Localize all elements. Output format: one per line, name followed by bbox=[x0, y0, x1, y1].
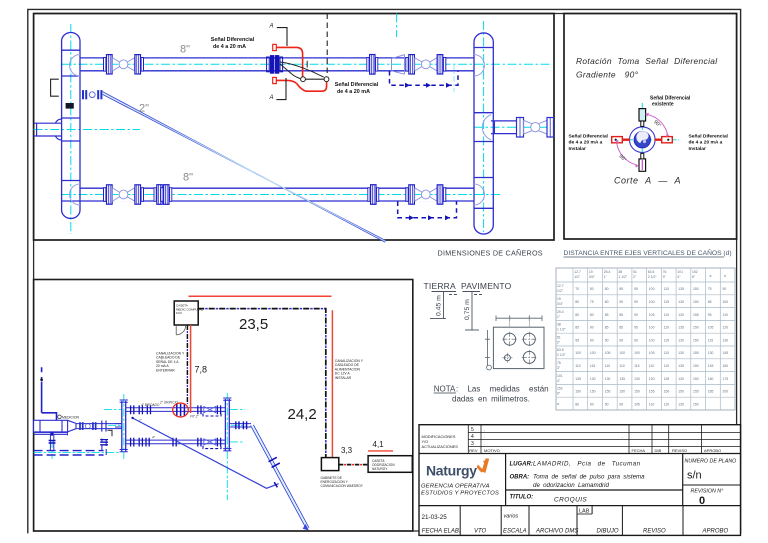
red power cable right vertical bbox=[331, 310, 333, 457]
svg-text:12.7: 12.7 bbox=[574, 270, 581, 274]
svg-text:130: 130 bbox=[678, 377, 684, 381]
svg-text:150: 150 bbox=[634, 390, 640, 394]
ground line tierra bbox=[432, 292, 458, 295]
svg-text:80: 80 bbox=[590, 287, 594, 291]
svg-text:95: 95 bbox=[619, 402, 623, 406]
svg-text:150: 150 bbox=[664, 390, 670, 394]
svg-text:90: 90 bbox=[590, 338, 594, 342]
svg-text:51: 51 bbox=[557, 335, 561, 339]
right tap to install bbox=[662, 137, 673, 143]
top tap existing bbox=[639, 109, 646, 121]
centerline top 8in pipe bbox=[62, 63, 552, 65]
pipe circle 1 bbox=[504, 333, 516, 345]
svg-text:REVISO: REVISO bbox=[643, 529, 666, 535]
weld tick on pipe bbox=[306, 61, 308, 68]
svg-text:8": 8" bbox=[183, 172, 193, 184]
naturgy orange mark bbox=[477, 465, 483, 473]
svg-text:GERENCIA OPERATIVA: GERENCIA OPERATIVA bbox=[421, 484, 490, 490]
svg-text:155: 155 bbox=[605, 390, 611, 394]
svg-text:130: 130 bbox=[590, 377, 596, 381]
svg-text:varios: varios bbox=[504, 514, 519, 520]
svg-text:110: 110 bbox=[723, 313, 729, 317]
svg-text:115: 115 bbox=[664, 300, 670, 304]
underground dashed mains bbox=[34, 450, 104, 452]
svg-text:95: 95 bbox=[619, 338, 623, 342]
svg-text:101: 101 bbox=[677, 270, 683, 274]
svg-text:160: 160 bbox=[723, 364, 729, 368]
svg-text:2": 2" bbox=[139, 103, 149, 115]
pipe circle 2 bbox=[523, 333, 535, 345]
bottom tap bbox=[639, 159, 646, 171]
svg-text:85: 85 bbox=[575, 326, 579, 330]
centerline right manifold header bbox=[226, 393, 228, 500]
svg-text:e: e bbox=[724, 274, 726, 278]
signal cable duct 23,5 run bbox=[198, 309, 326, 460]
svg-text:1/2": 1/2" bbox=[574, 275, 581, 279]
svg-text:4" BRIDADO: 4" BRIDADO bbox=[141, 403, 160, 407]
svg-text:Corte A — A: Corte A — A bbox=[614, 176, 681, 186]
svg-text:de 4 a 20 mA: de 4 a 20 mA bbox=[213, 44, 246, 50]
svg-text:Rotación Toma Señal Diferencia: Rotación Toma Señal Diferencial bbox=[576, 56, 718, 66]
red tap valve top bbox=[273, 44, 277, 50]
centerline short top bbox=[396, 14, 398, 38]
svg-text:101: 101 bbox=[557, 374, 563, 378]
junction circle 1 bbox=[301, 77, 306, 82]
left dimension line bbox=[485, 330, 490, 366]
centerline right header vertical bbox=[483, 21, 485, 232]
middle stub left header bbox=[115, 424, 122, 427]
svg-text:95: 95 bbox=[575, 338, 579, 342]
svg-text:152: 152 bbox=[557, 387, 563, 391]
svg-text:150: 150 bbox=[693, 338, 699, 342]
svg-text:8": 8" bbox=[180, 44, 190, 56]
spec blind double flange bottom pipe bbox=[154, 185, 165, 205]
svg-text:25.4: 25.4 bbox=[557, 310, 564, 314]
left header vessel bbox=[62, 33, 80, 219]
centerline inlet drop bbox=[51, 440, 53, 459]
tee fitting bbox=[102, 421, 106, 432]
svg-text:: Las medidas están: : Las medidas están bbox=[456, 385, 549, 394]
svg-text:155: 155 bbox=[649, 390, 655, 394]
modifications table lines bbox=[419, 425, 741, 454]
svg-text:110: 110 bbox=[664, 351, 670, 355]
svg-text:Señal Diferencial: Señal Diferencial bbox=[335, 82, 379, 88]
small pipe circle 4 bbox=[504, 355, 510, 361]
svg-text:ACTUALIZACIONES: ACTUALIZACIONES bbox=[422, 444, 459, 449]
svg-text:135: 135 bbox=[619, 377, 625, 381]
svg-text:FIT 2": FIT 2" bbox=[190, 414, 199, 418]
svg-text:90: 90 bbox=[634, 313, 638, 317]
pipe section inner bore bbox=[634, 132, 650, 148]
orifice flange pair bbox=[267, 57, 270, 72]
junction dot bbox=[50, 432, 53, 435]
left header top tee fillet bbox=[70, 55, 81, 77]
svg-text:19: 19 bbox=[557, 297, 561, 301]
svg-text:90: 90 bbox=[634, 338, 638, 342]
svg-text:dadas en milimetros.: dadas en milimetros. bbox=[452, 395, 530, 404]
svg-text:19: 19 bbox=[589, 270, 593, 274]
svg-text:150: 150 bbox=[693, 326, 699, 330]
svg-text:100: 100 bbox=[634, 351, 640, 355]
upper small pipe to cap bbox=[34, 432, 68, 436]
red tubing drop bbox=[190, 325, 192, 413]
valve assembly top pipe right bbox=[406, 55, 446, 74]
svg-text:85: 85 bbox=[708, 300, 712, 304]
svg-text:3/4": 3/4" bbox=[589, 275, 596, 279]
svg-text:150: 150 bbox=[678, 390, 684, 394]
svg-text:120: 120 bbox=[664, 402, 670, 406]
svg-text:150: 150 bbox=[619, 390, 625, 394]
cable gabinete-caseta bbox=[339, 464, 368, 466]
centerline bottom 8in pipe bbox=[62, 194, 500, 196]
svg-text:63.5: 63.5 bbox=[648, 270, 655, 274]
svg-text:.: . bbox=[484, 427, 485, 432]
svg-text:ESCALA: ESCALA bbox=[503, 529, 527, 535]
svg-text:115: 115 bbox=[634, 364, 640, 368]
svg-text:de 4 a 20 mA: de 4 a 20 mA bbox=[337, 89, 370, 95]
corner bracket marker bbox=[108, 430, 113, 436]
svg-text:38: 38 bbox=[618, 270, 622, 274]
svg-text:0: 0 bbox=[699, 495, 705, 507]
depth dim pavimento 0.75m bbox=[471, 292, 473, 331]
svg-text:Señal Diferencial: Señal Diferencial bbox=[650, 96, 691, 102]
svg-text:80: 80 bbox=[575, 402, 579, 406]
red aerial cable top bbox=[189, 295, 332, 297]
svg-text:Señal Diferencial: Señal Diferencial bbox=[569, 134, 609, 140]
svg-text:130: 130 bbox=[723, 338, 729, 342]
svg-text:de 4 a 20 mA a: de 4 a 20 mA a bbox=[569, 140, 603, 146]
svg-text:s/n: s/n bbox=[687, 470, 702, 482]
svg-text:FECHA: FECHA bbox=[632, 448, 646, 453]
svg-text:APROBO: APROBO bbox=[704, 448, 721, 453]
svg-text:100: 100 bbox=[649, 300, 655, 304]
junction circle 2 bbox=[324, 77, 329, 82]
crosshair centerlines bbox=[625, 139, 679, 141]
svg-text:100: 100 bbox=[649, 287, 655, 291]
svg-text:80: 80 bbox=[575, 313, 579, 317]
svg-text:85: 85 bbox=[619, 326, 623, 330]
svg-text:4,1: 4,1 bbox=[373, 440, 385, 449]
svg-text:130: 130 bbox=[678, 313, 684, 317]
drop to underground w flanges bbox=[50, 435, 53, 450]
dashed bypass under top pipe bbox=[390, 71, 459, 85]
svg-text:LAMADRID, Pcia de Tucuman: LAMADRID, Pcia de Tucuman bbox=[533, 461, 641, 468]
svg-text:21-03-25: 21-03-25 bbox=[422, 514, 448, 521]
svg-text:115: 115 bbox=[664, 338, 670, 342]
red tubing from bottom tap bbox=[276, 80, 326, 91]
svg-text:COMUNICACION WAESROY: COMUNICACION WAESROY bbox=[321, 484, 364, 488]
svg-text:ENTERRAR: ENTERRAR bbox=[156, 368, 175, 372]
rotation arc bottom left bbox=[617, 144, 637, 166]
svg-text:135: 135 bbox=[678, 287, 684, 291]
main block cell lines bbox=[419, 454, 741, 506]
svg-text:90: 90 bbox=[634, 300, 638, 304]
centerline right 2in stub bbox=[474, 126, 553, 128]
svg-text:Toma de señal de pulso para si: Toma de señal de pulso para sistema bbox=[533, 474, 645, 481]
centerline left header vertical bbox=[70, 24, 72, 234]
svg-text:80: 80 bbox=[575, 300, 579, 304]
svg-text:TIERRA: TIERRA bbox=[424, 281, 457, 291]
svg-text:110: 110 bbox=[649, 364, 655, 368]
svg-text:FCV: FCV bbox=[176, 311, 182, 315]
gabinete box bbox=[321, 458, 338, 471]
inlet small valve bbox=[79, 422, 96, 430]
svg-text:2 1/2": 2 1/2" bbox=[557, 353, 567, 357]
svg-text:145: 145 bbox=[723, 351, 729, 355]
svg-text:155: 155 bbox=[693, 313, 699, 317]
svg-text:135: 135 bbox=[678, 326, 684, 330]
svg-text:130: 130 bbox=[678, 338, 684, 342]
underground elbow up bbox=[102, 439, 106, 456]
svg-text:NOTA: NOTA bbox=[434, 385, 456, 394]
caseta medicion box bbox=[174, 301, 198, 325]
svg-text:1/2": 1/2" bbox=[557, 289, 564, 293]
svg-text:155: 155 bbox=[693, 351, 699, 355]
svg-text:90: 90 bbox=[723, 287, 727, 291]
svg-text:0,75 m: 0,75 m bbox=[464, 299, 471, 320]
depth dim tierra 0.45m bbox=[443, 292, 445, 319]
svg-text:115: 115 bbox=[708, 338, 714, 342]
right header vessel bbox=[474, 33, 493, 234]
svg-text:LAB: LAB bbox=[579, 509, 590, 515]
svg-text:PAVIMENTO: PAVIMENTO bbox=[461, 281, 512, 291]
svg-text:REVISO: REVISO bbox=[672, 448, 687, 453]
svg-text:150: 150 bbox=[693, 364, 699, 368]
svg-text:115: 115 bbox=[590, 364, 596, 368]
svg-text:152: 152 bbox=[692, 270, 698, 274]
svg-text:DISTANCIA ENTRE EJES VERTICALE: DISTANCIA ENTRE EJES VERTICALES DE CAÑOS… bbox=[564, 248, 732, 257]
svg-text:23,5: 23,5 bbox=[239, 316, 268, 333]
svg-text:51: 51 bbox=[633, 270, 637, 274]
red tap valve bottom bbox=[273, 77, 277, 83]
svg-text:110: 110 bbox=[649, 402, 655, 406]
svg-text:105: 105 bbox=[634, 402, 640, 406]
pipe circle 3 bbox=[523, 351, 535, 363]
svg-text:.: . bbox=[622, 434, 623, 439]
title block outer frame bbox=[419, 425, 741, 536]
right header bottom tee fillet bbox=[474, 184, 485, 205]
svg-text:95: 95 bbox=[708, 313, 712, 317]
svg-text:3: 3 bbox=[471, 441, 474, 447]
svg-text:REVISION N°: REVISION N° bbox=[691, 489, 724, 495]
svg-text:135: 135 bbox=[678, 364, 684, 368]
2in diagonal line bbox=[103, 92, 387, 243]
svg-text:80: 80 bbox=[605, 287, 609, 291]
wire between junctions bbox=[305, 78, 324, 80]
medicion tag bbox=[58, 415, 62, 419]
door swing bbox=[176, 325, 186, 335]
svg-text:a: a bbox=[710, 274, 712, 278]
svg-text:DIBUJO: DIBUJO bbox=[597, 529, 619, 535]
box: site plan frame bbox=[34, 280, 413, 532]
svg-text:155: 155 bbox=[693, 390, 699, 394]
orifice fitting in red circle bbox=[177, 404, 185, 416]
centerline pale vertical at bypass bbox=[453, 64, 455, 92]
svg-text:80: 80 bbox=[605, 300, 609, 304]
2in tap valve on left header bbox=[82, 90, 102, 99]
svg-text:Naturgy: Naturgy bbox=[426, 463, 477, 479]
svg-text:a: a bbox=[557, 402, 559, 406]
box: rotation detail frame bbox=[564, 14, 737, 240]
svg-text:TITULO:: TITULO: bbox=[510, 495, 534, 501]
svg-text:110: 110 bbox=[575, 364, 581, 368]
svg-text:de 4 a 20 mA a: de 4 a 20 mA a bbox=[689, 140, 723, 146]
svg-text:145: 145 bbox=[708, 364, 714, 368]
svg-text:Gradiente 90°: Gradiente 90° bbox=[576, 70, 639, 80]
main inlet pipe lines bbox=[76, 424, 122, 429]
svg-text:CROQUIS: CROQUIS bbox=[554, 497, 587, 504]
manifold top run bbox=[126, 408, 226, 412]
black bracket marker bbox=[51, 79, 59, 96]
svg-text:Señal Diferencial: Señal Diferencial bbox=[211, 37, 255, 43]
right header top tee fillet bbox=[474, 55, 485, 77]
svg-text:150: 150 bbox=[575, 390, 581, 394]
centerline left tee stub bbox=[34, 129, 140, 131]
svg-text:110: 110 bbox=[664, 313, 670, 317]
svg-text:MOTIVO: MOTIVO bbox=[484, 448, 500, 453]
svg-text:100: 100 bbox=[590, 351, 596, 355]
left header bottom tee fillet bbox=[70, 184, 81, 205]
svg-text:85: 85 bbox=[605, 313, 609, 317]
svg-text:0.45 m: 0.45 m bbox=[436, 295, 443, 316]
top run right valves bbox=[198, 405, 201, 414]
svg-text:175: 175 bbox=[723, 377, 729, 381]
manifold bottom run bbox=[126, 440, 226, 444]
svg-text:130: 130 bbox=[678, 300, 684, 304]
svg-text:130: 130 bbox=[649, 377, 655, 381]
svg-text:150: 150 bbox=[693, 287, 699, 291]
box: piping plan frame bbox=[34, 14, 554, 241]
svg-text:MEDICION: MEDICION bbox=[62, 416, 80, 420]
svg-text:NUMERO DE PLANO: NUMERO DE PLANO bbox=[685, 459, 737, 465]
svg-text:130: 130 bbox=[708, 351, 714, 355]
svg-text:105: 105 bbox=[649, 351, 655, 355]
svg-text:DIB: DIB bbox=[655, 448, 662, 453]
svg-text:105: 105 bbox=[708, 326, 714, 330]
left tee stub to border bbox=[34, 119, 62, 140]
svg-text:3/4": 3/4" bbox=[557, 302, 564, 306]
single flange top pipe right bbox=[367, 55, 378, 75]
steep 2in line to caseta bbox=[251, 425, 309, 529]
svg-text:100: 100 bbox=[619, 351, 625, 355]
bore swirl highlight bbox=[636, 131, 648, 143]
left tap to install bbox=[612, 137, 623, 143]
manifold right header bbox=[225, 399, 229, 451]
centerline bottom run stubs bbox=[230, 441, 244, 443]
right stub valve bbox=[517, 118, 524, 138]
svg-text:150: 150 bbox=[693, 300, 699, 304]
svg-text:A: A bbox=[269, 95, 274, 101]
svg-text:4: 4 bbox=[471, 434, 474, 440]
svg-text:80: 80 bbox=[590, 313, 594, 317]
rotation arc top right bbox=[648, 115, 668, 137]
svg-text:105: 105 bbox=[605, 351, 611, 355]
svg-text:110: 110 bbox=[619, 364, 625, 368]
svg-text:REV: REV bbox=[469, 448, 478, 453]
valve assembly top pipe left bbox=[104, 55, 144, 74]
svg-text:130: 130 bbox=[678, 351, 684, 355]
svg-text:5: 5 bbox=[471, 427, 474, 433]
right 2in stub pipe bbox=[491, 121, 517, 134]
svg-text:95: 95 bbox=[634, 287, 638, 291]
svg-text:Instalar: Instalar bbox=[689, 146, 706, 152]
svg-text:FECHA ELAB.: FECHA ELAB. bbox=[422, 529, 461, 535]
svg-text:12.7: 12.7 bbox=[557, 284, 564, 288]
svg-text:90: 90 bbox=[605, 402, 609, 406]
svg-text:110: 110 bbox=[664, 287, 670, 291]
sensing line riser bbox=[42, 367, 57, 420]
svg-text:110: 110 bbox=[664, 326, 670, 330]
svg-text:150: 150 bbox=[590, 390, 596, 394]
svg-text:ESTUDIOS Y PROYECTOS: ESTUDIOS Y PROYECTOS bbox=[421, 491, 499, 497]
single line to meter run bbox=[133, 418, 279, 488]
red tubing from top tap bbox=[276, 47, 302, 76]
right header side outlet dome bbox=[482, 115, 491, 140]
svg-text:105: 105 bbox=[649, 313, 655, 317]
svg-text:75: 75 bbox=[590, 300, 594, 304]
svg-text:90: 90 bbox=[590, 326, 594, 330]
valve assembly bottom pipe right bbox=[406, 185, 446, 204]
svg-text:VTO: VTO bbox=[474, 529, 487, 535]
svg-text:70: 70 bbox=[575, 287, 579, 291]
bottom row cell lines bbox=[460, 506, 683, 536]
svg-text:2 1/2": 2 1/2" bbox=[648, 275, 658, 279]
black signal wire left bbox=[280, 64, 301, 79]
manifold left header bbox=[122, 401, 126, 452]
svg-text:110: 110 bbox=[664, 364, 670, 368]
svg-text:160: 160 bbox=[708, 377, 714, 381]
datum circle bbox=[487, 365, 492, 370]
caseta odorizacion box bbox=[368, 456, 412, 473]
svg-text:LUGAR:: LUGAR: bbox=[510, 462, 533, 468]
top dimension line bbox=[496, 316, 542, 322]
svg-text:DIMENSIONES DE CAÑEROS: DIMENSIONES DE CAÑEROS bbox=[438, 249, 543, 258]
centerline top run stubs bbox=[104, 409, 121, 411]
svg-text:Señal Diferencial: Señal Diferencial bbox=[689, 134, 729, 140]
svg-text:de odorizacion Lamamdrid: de odorizacion Lamamdrid bbox=[533, 482, 609, 489]
signal drop to orifice bbox=[186, 325, 188, 404]
svg-text:130: 130 bbox=[634, 377, 640, 381]
ground line pavimento bbox=[463, 292, 483, 295]
svg-text:A: A bbox=[269, 24, 274, 30]
svg-text:.: . bbox=[484, 441, 485, 446]
valve assembly bottom pipe left bbox=[104, 185, 144, 204]
centerline left manifold header bbox=[123, 394, 125, 459]
svg-text:INSTALAR: INSTALAR bbox=[335, 376, 352, 380]
svg-text:185: 185 bbox=[708, 390, 714, 394]
reducer cone top pipe bbox=[392, 55, 405, 75]
right stub from right header bbox=[229, 424, 251, 427]
svg-text:OBRA:: OBRA: bbox=[510, 475, 530, 481]
svg-text:existente: existente bbox=[652, 102, 674, 108]
svg-text:Instalar: Instalar bbox=[569, 146, 586, 152]
svg-text:75: 75 bbox=[708, 287, 712, 291]
bottom 8in pipe bbox=[80, 188, 474, 201]
svg-text:95: 95 bbox=[634, 326, 638, 330]
svg-text:90: 90 bbox=[605, 338, 609, 342]
svg-text:25.4: 25.4 bbox=[604, 270, 611, 274]
svg-text:135: 135 bbox=[678, 402, 684, 406]
svg-text:76: 76 bbox=[557, 361, 561, 365]
svg-text:100: 100 bbox=[723, 300, 729, 304]
svg-text:150: 150 bbox=[693, 377, 699, 381]
svg-text:3,3: 3,3 bbox=[341, 446, 353, 455]
svg-text:85: 85 bbox=[605, 326, 609, 330]
svg-text:.: . bbox=[484, 434, 485, 439]
svg-text:100: 100 bbox=[575, 351, 581, 355]
svg-text:110: 110 bbox=[605, 364, 611, 368]
section marker A bottom bbox=[276, 78, 286, 100]
